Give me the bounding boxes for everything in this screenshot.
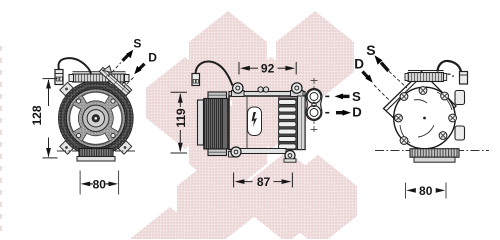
- centerline dashes right of foot: [115, 150, 135, 152]
- watermark hexagon A: [189, 11, 267, 103]
- svg-text:80: 80: [93, 177, 107, 191]
- top-left lug: [232, 91, 245, 97]
- svg-text:S: S: [352, 89, 361, 104]
- pulley ribbed band: [204, 99, 223, 150]
- bolt 2: [419, 87, 427, 95]
- clutch window N: [82, 92, 109, 103]
- ear tab top-left: [60, 82, 73, 95]
- bolt 7: [439, 132, 447, 140]
- D leader dashed (left view): [124, 78, 134, 87]
- hub center bolt: [92, 114, 100, 122]
- S thick arrow (left view): [123, 50, 134, 61]
- badge pill: [248, 107, 262, 136]
- watermark hexagon G: [279, 155, 357, 240]
- connector (left view): [55, 70, 63, 85]
- connector (middle view): [192, 74, 200, 86]
- dimension 80 (right): [406, 183, 447, 199]
- svg-text:S: S: [366, 42, 375, 58]
- clutch window S: [82, 133, 109, 144]
- ear tab top-right: [118, 82, 131, 95]
- watermark left-edge dashes: [0, 46, 2, 231]
- bottom stub block: [229, 152, 236, 158]
- ear tab bottom-right: [118, 141, 131, 154]
- wire (right view): [438, 61, 462, 72]
- watermark hexagon F: [248, 151, 326, 240]
- watermark hexagon C: [232, 57, 310, 149]
- port mid bolt: [312, 102, 316, 106]
- top-right lug: [291, 91, 304, 97]
- S leader dashed (left view): [108, 63, 121, 77]
- dimension 119: [171, 92, 188, 153]
- center mark: [423, 117, 426, 120]
- svg-text:87: 87: [257, 175, 271, 189]
- bolt 5: [449, 114, 457, 122]
- port S annotation: [325, 95, 329, 97]
- watermark hexagon E: [177, 155, 255, 240]
- top small bosses: [258, 87, 263, 92]
- svg-text:D: D: [352, 104, 362, 119]
- port block: [306, 89, 322, 121]
- D thick arrow (left view): [134, 64, 144, 74]
- clutch window E: [111, 105, 122, 132]
- centerline dash-dot right: [460, 150, 490, 152]
- S leader dashed (right view): [389, 71, 407, 88]
- body main outline: [229, 96, 305, 150]
- dimension 80 (left): [80, 171, 119, 195]
- top bracket: [73, 74, 126, 82]
- right tab top: [455, 91, 465, 105]
- svg-text:S: S: [133, 37, 141, 51]
- centerline dash-dot left: [375, 150, 410, 152]
- clutch bolt 2: [77, 99, 81, 103]
- wire (middle view): [196, 61, 233, 85]
- ribs stack: [279, 100, 297, 149]
- port S: [307, 90, 321, 104]
- wire (left view): [58, 58, 91, 74]
- foot (right view): [410, 149, 459, 158]
- D leader dashed (right view): [374, 85, 391, 102]
- diamond inner edge line: [387, 76, 423, 111]
- top bracket (right view): [408, 73, 444, 82]
- svg-text:80: 80: [419, 184, 433, 198]
- bolt 6: [400, 137, 408, 145]
- bolt 3: [441, 92, 449, 100]
- body inner divisions: [246, 96, 248, 150]
- hub ring: [83, 105, 109, 131]
- svg-text:119: 119: [174, 108, 188, 128]
- svg-text:D: D: [354, 57, 364, 72]
- dimension 128: [43, 79, 58, 158]
- inner arc top-right: [437, 92, 452, 110]
- ribs backing: [278, 98, 298, 150]
- port D: [307, 106, 321, 120]
- clutch bolt 4: [111, 133, 115, 137]
- svg-text:92: 92: [261, 61, 275, 75]
- clutch bolt 1: [111, 99, 115, 103]
- right tab bottom: [455, 126, 465, 140]
- bottom-left lug: [231, 147, 241, 157]
- clutch window W: [70, 105, 81, 132]
- ear tab bottom-left: [60, 141, 73, 154]
- dimension 87: [234, 173, 293, 188]
- bottom foot: [79, 149, 113, 157]
- bottom rail: [239, 149, 286, 154]
- rear face circle: [394, 87, 456, 149]
- bottom-right lug: [285, 151, 295, 161]
- pulley bottom cap: [208, 149, 227, 156]
- bracket end specks: [448, 74, 455, 77]
- clutch bolt 3: [77, 133, 81, 137]
- S thick arrow (right view): [375, 55, 389, 71]
- clutch plate: [66, 89, 125, 148]
- pulley right flange: [222, 99, 228, 150]
- watermark hexagon B: [276, 11, 354, 103]
- D thick arrow (right view): [363, 72, 373, 83]
- rear head band: [298, 96, 306, 150]
- badge glyph: [252, 112, 258, 127]
- body top rail: [229, 92, 305, 97]
- connector (right view): [460, 72, 468, 85]
- watermark hexagon L: [146, 57, 224, 149]
- port D annotation: [325, 112, 329, 114]
- fitting tip triangle: [103, 66, 112, 73]
- dimension 92: [239, 62, 296, 75]
- watermark hexagon H: [131, 207, 209, 240]
- fitting 45deg (left view): [99, 67, 129, 95]
- front nose plate: [198, 100, 204, 145]
- svg-text:D: D: [148, 50, 157, 64]
- bolt 4: [395, 114, 403, 122]
- pulley groove ring: [59, 81, 133, 155]
- pulley outer circle: [59, 81, 133, 155]
- watermark hexagon D2: [189, 103, 267, 195]
- bolt 1: [400, 93, 408, 101]
- centerline dashes left of foot: [57, 150, 77, 152]
- svg-text:128: 128: [30, 105, 44, 125]
- port centerline: [311, 78, 318, 132]
- pulley top cap: [208, 92, 227, 99]
- diamond body: [384, 72, 457, 145]
